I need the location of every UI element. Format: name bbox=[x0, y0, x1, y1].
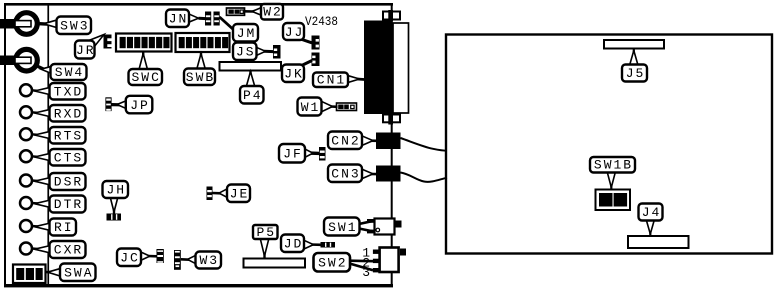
svg-text:JJ: JJ bbox=[285, 25, 305, 40]
label JN tail bbox=[199, 17, 207, 20]
DIP switch block SWB bbox=[176, 33, 230, 52]
svg-text:JP: JP bbox=[130, 98, 150, 113]
switch SW1 marking o bbox=[376, 228, 380, 232]
label DSR tail bbox=[32, 179, 38, 182]
label CN2 tail bbox=[370, 139, 377, 142]
label JN bbox=[166, 10, 189, 28]
label JM bbox=[233, 24, 258, 42]
svg-text:SWC: SWC bbox=[131, 70, 160, 85]
svg-text:W3: W3 bbox=[199, 253, 219, 268]
jumper JR component bbox=[104, 35, 112, 49]
label JM tail bbox=[220, 17, 236, 31]
svg-text:JH: JH bbox=[106, 183, 126, 198]
DIP switch block SWC bbox=[116, 34, 172, 52]
label SWC bbox=[129, 69, 163, 85]
label W2 tail bbox=[244, 10, 254, 13]
switch SW1 nub bbox=[395, 221, 402, 228]
svg-text:CN3: CN3 bbox=[331, 167, 360, 182]
label TXD tail bbox=[32, 89, 38, 92]
label CN3 tail bbox=[370, 173, 377, 176]
svg-text:JC: JC bbox=[120, 251, 140, 266]
right detail panel bbox=[446, 35, 772, 254]
svg-text:CN1: CN1 bbox=[317, 73, 346, 88]
switch SW1 pins bbox=[367, 219, 374, 223]
label JP tail bbox=[112, 103, 123, 106]
jumper JD component bbox=[321, 242, 336, 248]
svg-text:W1: W1 bbox=[301, 100, 321, 115]
header J4 bbox=[628, 236, 689, 248]
LED DSR bbox=[20, 175, 32, 187]
jumper JP component bbox=[105, 97, 111, 111]
label W2 bbox=[261, 4, 283, 20]
svg-text:SW2: SW2 bbox=[318, 256, 347, 271]
svg-text:DSR: DSR bbox=[54, 175, 83, 190]
jumper JS component bbox=[273, 45, 281, 59]
svg-text:JD: JD bbox=[284, 237, 304, 252]
svg-text:CTS: CTS bbox=[54, 150, 83, 165]
front panel separator line bbox=[47, 3, 49, 287]
board left edge bbox=[4, 3, 6, 287]
label JP bbox=[126, 96, 153, 114]
svg-text:JF: JF bbox=[283, 147, 303, 162]
label TXD bbox=[50, 83, 86, 100]
svg-text:JS: JS bbox=[236, 45, 256, 60]
svg-text:DTR: DTR bbox=[54, 197, 83, 212]
label SW3 bbox=[57, 17, 92, 35]
label JE bbox=[227, 185, 250, 203]
board bottom edge bbox=[4, 284, 393, 287]
svg-text:SW4: SW4 bbox=[55, 65, 84, 80]
switch SW2 body bbox=[380, 248, 399, 273]
label W1 tail bbox=[331, 105, 338, 108]
label SW2 tails bbox=[350, 259, 374, 262]
rotary switch SW3 slot bbox=[15, 21, 31, 27]
label SWB bbox=[184, 69, 215, 86]
label JD bbox=[281, 235, 304, 253]
jumper W1 component bbox=[337, 103, 357, 111]
label JJ tail bbox=[299, 39, 312, 43]
svg-text:V2438: V2438 bbox=[305, 15, 338, 29]
svg-text:JM: JM bbox=[237, 26, 257, 41]
rotary switch SW4 shaft bbox=[0, 56, 15, 66]
label J5 bbox=[622, 65, 647, 82]
label JC tail bbox=[148, 255, 157, 258]
jumper JE component bbox=[207, 187, 213, 201]
label SW4 tail bbox=[38, 67, 45, 70]
label RI tail bbox=[32, 225, 38, 228]
jumper block JN component (two columns) bbox=[205, 12, 211, 26]
wire from CN3 bbox=[401, 173, 448, 182]
svg-text:RTS: RTS bbox=[54, 128, 83, 143]
connector CN3 bbox=[376, 166, 401, 182]
label CN1 tail bbox=[357, 78, 365, 81]
svg-text:CN2: CN2 bbox=[331, 134, 360, 149]
LED RI bbox=[20, 220, 32, 232]
dip switch SWA body bbox=[13, 265, 46, 284]
label J4 bbox=[639, 204, 663, 221]
label SW1B tail bbox=[610, 184, 612, 190]
header P5 bbox=[244, 259, 306, 268]
label JR tail bbox=[88, 35, 105, 48]
svg-text:SW1B: SW1B bbox=[594, 158, 633, 173]
label JC bbox=[117, 249, 141, 267]
label CN1 bbox=[313, 73, 348, 88]
board top edge bbox=[4, 3, 393, 6]
label SW4 bbox=[51, 64, 87, 80]
label JH tail bbox=[113, 208, 115, 214]
svg-text:JN: JN bbox=[169, 12, 189, 27]
label J4 tail bbox=[649, 230, 651, 237]
label SWA tail bbox=[46, 271, 53, 274]
jumper JF component bbox=[319, 147, 326, 161]
label SW2 bbox=[314, 253, 351, 272]
connector CN1 edge bar bottom bbox=[388, 114, 393, 125]
switch SW1B component bbox=[596, 190, 631, 211]
label CTS bbox=[50, 149, 86, 166]
jumper JK component bbox=[312, 53, 320, 67]
svg-text:W2: W2 bbox=[263, 5, 283, 20]
jumper W3 component bbox=[174, 250, 181, 270]
label P5 bbox=[253, 225, 278, 239]
label SWB tail bbox=[200, 52, 202, 58]
svg-text:P4: P4 bbox=[243, 88, 263, 103]
rotary switch SW3 shaft bbox=[0, 19, 15, 29]
rotary switch SW4 ring bbox=[16, 49, 38, 71]
label DTR tail bbox=[32, 202, 38, 205]
label SW1 tails bbox=[359, 221, 374, 224]
label RTS bbox=[50, 127, 86, 144]
label CTS tail bbox=[32, 155, 38, 158]
label CN3 bbox=[328, 165, 362, 183]
wire from CN2 bbox=[401, 138, 448, 151]
connector CN1 edge bar top bbox=[388, 10, 393, 22]
label JF tail bbox=[307, 151, 320, 155]
LED CXR bbox=[20, 243, 32, 255]
svg-text:SW3: SW3 bbox=[60, 18, 89, 33]
header J5 bbox=[604, 40, 664, 49]
connector CN1 top screw tab bbox=[383, 12, 400, 20]
connector CN1 housing bbox=[393, 23, 409, 113]
svg-text:SWA: SWA bbox=[64, 265, 93, 280]
label P4 tail bbox=[249, 71, 251, 77]
connector CN2 bbox=[376, 133, 401, 150]
svg-text:RI: RI bbox=[54, 220, 74, 235]
LED RXD bbox=[20, 106, 32, 118]
label JK bbox=[282, 65, 304, 83]
dip switch SWA cells bbox=[16, 268, 43, 280]
svg-text:P5: P5 bbox=[256, 225, 276, 240]
label SWA bbox=[60, 264, 96, 282]
jumper JC component bbox=[157, 249, 164, 263]
jumper W2 component bbox=[227, 8, 245, 15]
label RTS tail bbox=[32, 133, 38, 136]
label JS tail bbox=[264, 50, 274, 53]
label RI bbox=[50, 219, 77, 236]
rotary switch SW3 ring bbox=[16, 13, 38, 35]
label SW1B bbox=[590, 157, 635, 173]
svg-text:JK: JK bbox=[284, 67, 304, 82]
header P4 bbox=[220, 62, 282, 71]
LED TXD bbox=[20, 84, 32, 96]
LED CTS bbox=[20, 150, 32, 162]
label J5 tail bbox=[633, 49, 635, 56]
jumper JJ component bbox=[312, 36, 320, 50]
label SW3 tail bbox=[40, 22, 50, 26]
label SW1 bbox=[324, 218, 360, 236]
label JF bbox=[279, 144, 305, 163]
svg-text:SWB: SWB bbox=[186, 70, 215, 85]
connector CN1 bottom screw tab bbox=[383, 115, 400, 123]
label P5 tail bbox=[263, 253, 265, 259]
svg-text:JE: JE bbox=[230, 187, 250, 202]
label RXD bbox=[50, 105, 86, 122]
LED RTS bbox=[20, 128, 32, 140]
label W3 tail bbox=[181, 258, 190, 261]
label CXR bbox=[50, 241, 86, 258]
LED DTR bbox=[20, 197, 32, 209]
svg-text:J4: J4 bbox=[642, 205, 662, 220]
label JJ bbox=[283, 23, 304, 40]
label DSR bbox=[50, 173, 86, 190]
label DTR bbox=[50, 196, 86, 213]
label SWC tail bbox=[142, 52, 144, 58]
label RXD tail bbox=[32, 111, 38, 114]
svg-text:RXD: RXD bbox=[54, 106, 83, 121]
label CXR tail bbox=[32, 247, 38, 250]
svg-text:CXR: CXR bbox=[54, 243, 83, 258]
label JR bbox=[75, 41, 95, 59]
label P4 bbox=[240, 86, 264, 104]
jumper JH component bbox=[107, 214, 122, 221]
rotary switch SW4 slot bbox=[15, 57, 31, 63]
svg-text:SW1: SW1 bbox=[328, 220, 357, 235]
label JS bbox=[233, 43, 257, 61]
label JK tail bbox=[300, 61, 313, 67]
label W1 bbox=[298, 98, 322, 116]
label JD tail bbox=[309, 243, 321, 246]
svg-text:J5: J5 bbox=[626, 66, 646, 81]
label CN2 bbox=[328, 132, 362, 150]
label JE tail bbox=[213, 192, 221, 195]
label W3 bbox=[196, 252, 222, 269]
svg-text:JR: JR bbox=[76, 43, 96, 58]
switch SW2 nub bbox=[400, 249, 406, 256]
label JH bbox=[103, 181, 129, 198]
connector CN1 black body bbox=[364, 21, 392, 115]
svg-text:TXD: TXD bbox=[54, 84, 83, 99]
switch SW1 body bbox=[375, 219, 395, 235]
switch SW2 pins bbox=[373, 250, 379, 254]
board right edge bbox=[391, 3, 393, 287]
